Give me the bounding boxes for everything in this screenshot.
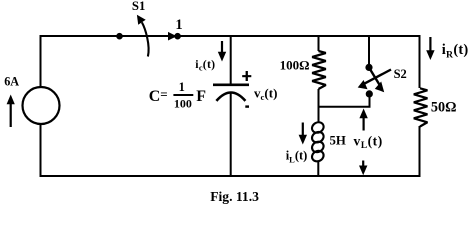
wire capacitor bottom bbox=[230, 93, 232, 177]
svg-text:1: 1 bbox=[179, 80, 185, 94]
wire top bbox=[41, 35, 420, 37]
svg-text:iR(t): iR(t) bbox=[442, 42, 469, 60]
wire S2 top bbox=[368, 35, 370, 68]
svg-text:50Ω: 50Ω bbox=[431, 100, 457, 116]
svg-text:5H: 5H bbox=[330, 133, 346, 147]
svg-text:S1: S1 bbox=[132, 0, 145, 13]
arrow ic(t) down bbox=[218, 41, 226, 62]
wire bottom bbox=[41, 175, 420, 177]
svg-text:100: 100 bbox=[174, 97, 192, 111]
arrow 6A up bbox=[7, 95, 15, 128]
switch S2 blade 2 bbox=[365, 70, 392, 84]
arrowhead S2 blade 2 bbox=[358, 80, 368, 89]
arrow vL(t) up bbox=[359, 109, 367, 131]
wire mid node to S2 bbox=[319, 95, 370, 107]
svg-text:F: F bbox=[196, 88, 206, 105]
svg-text:ic(t): ic(t) bbox=[195, 57, 215, 72]
switch S2 blade 1 bbox=[369, 68, 380, 86]
node dot S2 bottom bbox=[366, 90, 373, 97]
inductor L1 5H coil bbox=[310, 120, 325, 163]
resistor R1 100ohm bbox=[312, 51, 326, 89]
wire R1 to inductor bbox=[318, 89, 320, 123]
svg-text:S2: S2 bbox=[394, 67, 407, 81]
label plus vc bbox=[242, 75, 251, 77]
current source I1 6A bbox=[23, 87, 60, 124]
arrow iL(t) down bbox=[299, 123, 307, 145]
wire resistor R1 top bbox=[318, 36, 320, 51]
wire right lower bbox=[419, 126, 421, 177]
svg-text:=: = bbox=[160, 87, 167, 102]
arrowhead S1 closing onto node 1 bbox=[168, 32, 177, 41]
wire left upper bbox=[40, 35, 42, 88]
svg-text:C: C bbox=[149, 88, 161, 105]
switch S1 arc bbox=[142, 22, 149, 56]
node dot top wire left bbox=[116, 33, 123, 40]
capacitor C1 curved plate bbox=[216, 93, 245, 101]
svg-text:vc(t): vc(t) bbox=[254, 85, 277, 102]
svg-text:1: 1 bbox=[175, 17, 182, 33]
resistor R2 50ohm bbox=[414, 88, 428, 126]
node dot S2 top bbox=[365, 64, 372, 71]
wire right upper bbox=[419, 35, 421, 88]
capacitor C1 top plate bbox=[213, 84, 249, 87]
arrow vL(t) down bbox=[359, 161, 367, 176]
svg-text:6A: 6A bbox=[4, 75, 19, 89]
arrowhead S2 blade 1 bbox=[375, 82, 384, 93]
svg-text:Fig. 11.3: Fig. 11.3 bbox=[210, 189, 259, 204]
svg-text:iL(t): iL(t) bbox=[286, 149, 308, 165]
wire capacitor top bbox=[230, 36, 232, 84]
svg-text:100Ω: 100Ω bbox=[280, 58, 310, 73]
wire inductor bottom bbox=[317, 161, 319, 177]
arrow iR(t) down bbox=[426, 37, 434, 60]
wire left lower bbox=[40, 124, 42, 178]
fraction bar bbox=[173, 94, 193, 96]
label minus vc bbox=[245, 105, 249, 107]
node dot 1 bbox=[174, 33, 181, 40]
arrowhead S1 arc tip bbox=[137, 15, 146, 25]
